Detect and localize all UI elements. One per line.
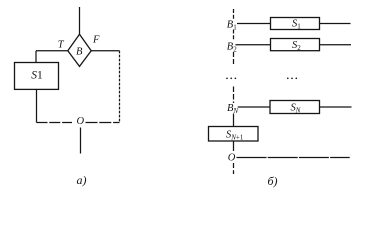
- svg-text:O: O: [77, 116, 85, 127]
- svg-text:T: T: [58, 40, 65, 51]
- svg-text:а): а): [77, 173, 87, 187]
- wire row1 left: [237, 23, 271, 25]
- wire below O: [233, 163, 235, 174]
- svg-text:F: F: [92, 35, 100, 46]
- wire entry into decision B: [79, 7, 81, 35]
- box SN+1: [209, 127, 259, 142]
- wire trunk segment SN1 to O: [233, 141, 235, 151]
- wire bottom merge line right part: [86, 122, 120, 124]
- wire row3 right: [320, 106, 352, 108]
- wire exit below O: [80, 128, 82, 154]
- svg-text:O: O: [228, 153, 236, 164]
- svg-text:SN: SN: [291, 103, 301, 115]
- wire row2 left: [235, 44, 270, 46]
- wire false branch down: [119, 51, 121, 123]
- process box S1: [15, 63, 59, 90]
- wire row3 left: [238, 106, 270, 108]
- wire trunk segment between B1 B2: [233, 30, 235, 42]
- ellipsis on trunk: [226, 77, 236, 79]
- box S2 row: [271, 39, 320, 51]
- wire trunk segment below B2: [233, 52, 235, 65]
- svg-text:S1: S1: [31, 70, 43, 82]
- wire row1 right: [320, 23, 351, 25]
- wire trunk segment above B1: [233, 9, 235, 20]
- decision diamond B: [68, 34, 91, 66]
- ellipsis middle column: [287, 77, 297, 79]
- wire bottom merge line left part: [37, 122, 73, 124]
- svg-text:S1: S1: [292, 19, 301, 31]
- box SN row: [270, 101, 320, 114]
- svg-text:б): б): [268, 174, 278, 188]
- wire from O to right: [237, 157, 350, 159]
- box S1 row: [271, 18, 320, 30]
- wire trunk segment above BN: [233, 87, 235, 104]
- svg-text:SN+1: SN+1: [226, 130, 244, 142]
- svg-text:BN: BN: [227, 103, 238, 115]
- wire false branch horizontal: [91, 50, 119, 52]
- wire trunk segment BN to SN1 box: [233, 114, 235, 127]
- wire true branch down into S1: [35, 51, 37, 63]
- svg-text:B: B: [76, 47, 83, 58]
- wire S1 output down: [36, 89, 38, 122]
- svg-text:S2: S2: [292, 40, 301, 52]
- svg-text:B1: B1: [227, 19, 237, 31]
- wire row2 right: [320, 44, 352, 46]
- wire true branch horizontal: [36, 50, 68, 52]
- svg-text:B2: B2: [227, 41, 237, 53]
